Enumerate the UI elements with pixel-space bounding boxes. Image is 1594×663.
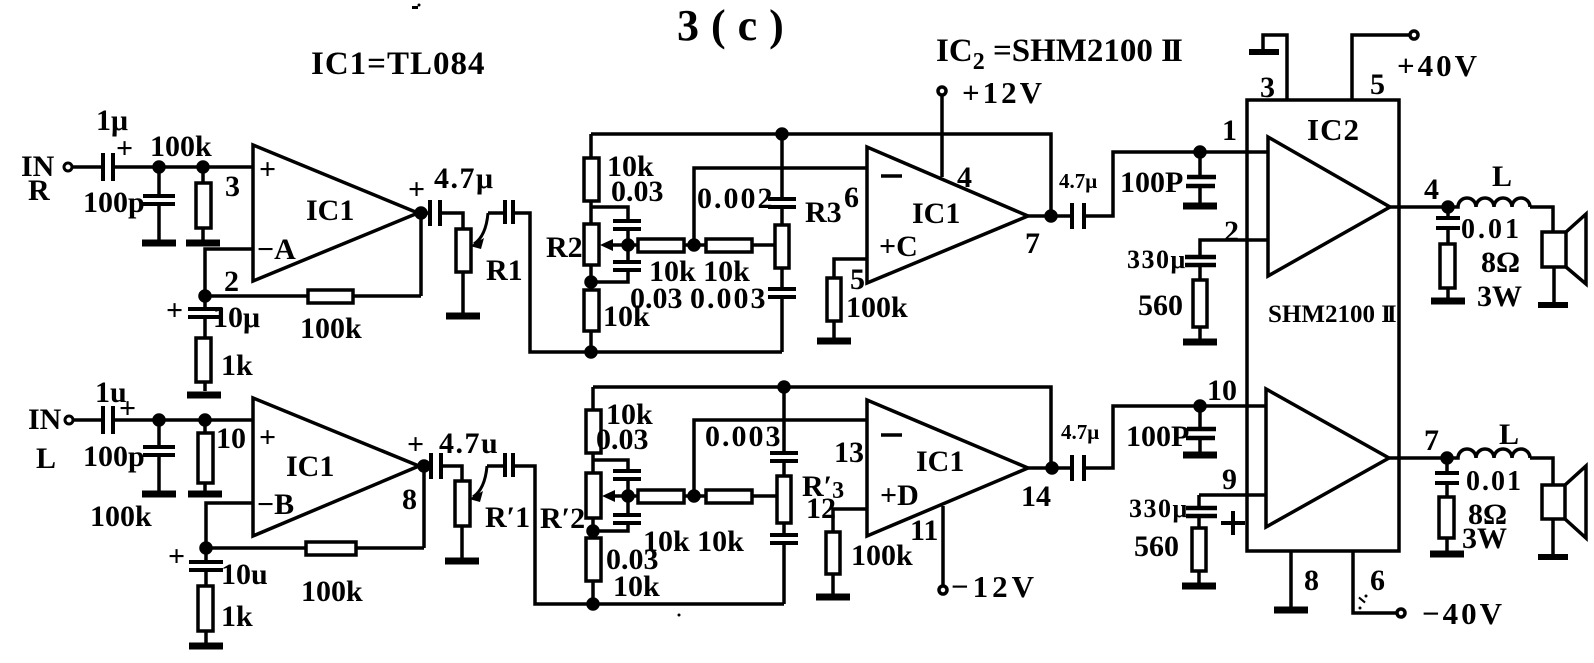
node mid filter (L) xyxy=(689,491,699,501)
capacitor 0.01 (lower zobel) xyxy=(1435,458,1523,497)
svg-text:10: 10 xyxy=(216,422,246,455)
capacitor 10u (B) xyxy=(168,540,268,591)
wire output pin7 xyxy=(1389,456,1449,460)
wire feedback top rail (L) xyxy=(593,387,1051,468)
resistor 100k input (L) xyxy=(90,420,213,533)
svg-text:−40V: −40V xyxy=(1422,596,1505,631)
wire D out to IC2 pin10 xyxy=(1084,406,1200,468)
capacitor 100P (pin10) xyxy=(1126,406,1216,453)
capacitor 0.003 (L) xyxy=(705,387,798,476)
node wiper R'2 xyxy=(623,491,633,501)
node R input 1 xyxy=(154,162,164,172)
capacitor 100p (L) xyxy=(83,420,175,491)
svg-text:+: + xyxy=(259,421,276,454)
svg-text:330μ: 330μ xyxy=(1129,494,1189,523)
resistor 100k pin5 (C) xyxy=(827,278,908,338)
ground 100p (L) xyxy=(142,492,176,496)
ground pin3 xyxy=(1249,49,1279,55)
svg-text:+: + xyxy=(166,294,183,327)
resistor 8ohm (upper zobel) xyxy=(1440,244,1522,313)
svg-text:L: L xyxy=(1492,160,1512,193)
node pin4 xyxy=(1443,202,1453,212)
svg-text:1k: 1k xyxy=(221,349,253,382)
ground zobel (lower) xyxy=(1430,552,1464,556)
wire L to speaker (lower) xyxy=(1530,458,1553,485)
op-amp U1A IC1 xyxy=(253,145,418,281)
node L input 2 xyxy=(200,415,210,425)
capacitor 0.01 (upper zobel) xyxy=(1436,207,1522,245)
potentiometer R'2 xyxy=(540,473,628,538)
inductor L (upper) xyxy=(1450,160,1530,207)
svg-text:9: 9 xyxy=(1222,463,1237,496)
resistor 10k lower chain (R) xyxy=(584,290,650,352)
speck marks xyxy=(412,4,1368,617)
wire R input to op-amp xyxy=(113,165,253,169)
svg-text:7: 7 xyxy=(1025,227,1040,260)
svg-text:0.002: 0.002 xyxy=(697,182,775,215)
input terminal R xyxy=(64,163,72,171)
wire to R'1 xyxy=(441,466,462,481)
wire pin10 internal xyxy=(1200,404,1266,408)
svg-text:4: 4 xyxy=(957,161,972,194)
svg-text:2: 2 xyxy=(224,265,239,298)
ground 100k pin12 (D) xyxy=(816,595,850,599)
svg-text:100k: 100k xyxy=(301,575,363,608)
input terminal L xyxy=(65,416,73,424)
node L input 1 xyxy=(154,415,164,425)
node pin7 xyxy=(1442,453,1452,463)
svg-text:4.7μ: 4.7μ xyxy=(1059,169,1097,193)
resistor R3 xyxy=(775,196,842,289)
capacitor 0.003 (R) xyxy=(690,282,796,352)
node chain junction (L) xyxy=(588,526,598,536)
svg-text:6: 6 xyxy=(844,181,859,214)
wire input L xyxy=(73,418,103,422)
svg-text:IC1: IC1 xyxy=(912,197,960,230)
capacitor coupling (B to filter) xyxy=(487,453,513,477)
svg-text:+: + xyxy=(116,132,133,165)
supply +12V terminal xyxy=(938,75,1045,177)
svg-text:IC1: IC1 xyxy=(306,194,354,227)
capacitor lower (L R'3) xyxy=(770,535,798,604)
ground R'1 xyxy=(445,559,479,563)
ground 100k pin5 (C) xyxy=(817,339,851,343)
node output D xyxy=(1047,463,1057,473)
capacitor 0.002 (R) xyxy=(697,134,796,225)
svg-text:1: 1 xyxy=(1222,114,1237,147)
wire output C xyxy=(1028,214,1072,218)
svg-text:0.03: 0.03 xyxy=(596,423,649,456)
capacitor C 1u (L input) xyxy=(95,376,136,434)
svg-text:560: 560 xyxy=(1134,530,1179,563)
svg-text:0.03: 0.03 xyxy=(611,175,664,208)
wire pin8 xyxy=(1289,551,1293,607)
node mid filter (R) xyxy=(689,240,699,250)
amp triangle 2 (IC2 lower) xyxy=(1266,389,1389,527)
resistor R'3 xyxy=(777,470,844,535)
svg-text:3W: 3W xyxy=(1462,522,1507,555)
svg-text:8: 8 xyxy=(402,483,417,516)
resistor 10k horizontal A (L) xyxy=(628,490,744,558)
svg-text:3(c): 3(c) xyxy=(677,1,796,50)
ground zobel (upper) xyxy=(1431,299,1465,303)
ground speaker (lower) xyxy=(1538,554,1568,560)
node feedback A xyxy=(200,291,210,301)
svg-text:7: 7 xyxy=(1424,424,1439,457)
wire mid node to pin6 xyxy=(694,168,867,245)
svg-text:5: 5 xyxy=(1370,68,1385,101)
svg-text:0.01: 0.01 xyxy=(1466,466,1523,497)
wire coupling to filter bottom rail (L) xyxy=(513,466,784,604)
wire pin9 internal xyxy=(1199,493,1266,497)
svg-text:10: 10 xyxy=(1207,374,1237,407)
wire mid node to pin13 xyxy=(694,420,867,496)
ground 100p (R) xyxy=(142,241,176,245)
svg-text:R′1: R′1 xyxy=(485,501,530,534)
resistor 10k horizontal B (L) xyxy=(706,490,778,503)
ground 1k (A) xyxy=(187,393,221,397)
svg-text:+40V: +40V xyxy=(1397,48,1480,83)
svg-text:+C: +C xyxy=(879,230,918,263)
svg-text:10k 10k: 10k 10k xyxy=(643,525,744,558)
potentiometer R1 xyxy=(456,213,523,313)
ground 560 (pin9) xyxy=(1182,584,1216,588)
ground 100P (pin10) xyxy=(1183,453,1217,457)
op-amp U1C IC1 xyxy=(867,147,1028,283)
capacitor 4.7u (D out) xyxy=(1061,420,1099,481)
svg-text:+: + xyxy=(408,173,425,206)
svg-text:4.7u: 4.7u xyxy=(439,427,499,460)
resistor 100k pin12 (D) xyxy=(826,532,913,594)
capacitor 0.03 upper (L) xyxy=(593,460,641,496)
node feedback B xyxy=(201,543,211,553)
svg-text:10μ: 10μ xyxy=(213,301,260,334)
capacitor 4.7u (C out) xyxy=(1059,169,1097,229)
svg-text:10u: 10u xyxy=(221,558,268,591)
resistor 10k upper chain (R) xyxy=(584,134,664,224)
svg-text:R3: R3 xyxy=(805,196,842,229)
node filter bottom (R) xyxy=(586,347,596,357)
svg-text:3: 3 xyxy=(225,170,240,203)
svg-text:330μ: 330μ xyxy=(1127,245,1187,274)
capacitor 330u (pin9) xyxy=(1129,494,1245,535)
svg-text:1k: 1k xyxy=(221,600,253,633)
svg-text:R1: R1 xyxy=(486,254,523,287)
svg-text:L: L xyxy=(1499,418,1519,451)
speaker (upper) xyxy=(1542,214,1586,302)
wire pin2 xyxy=(1200,240,1268,256)
svg-text:100P: 100P xyxy=(1120,166,1183,199)
svg-text:11: 11 xyxy=(910,514,938,547)
resistor 10k horizontal A (R) xyxy=(628,239,750,288)
wire output D xyxy=(1028,466,1072,470)
supply -12V terminal xyxy=(939,506,1038,604)
resistor 10k lower chain (L) xyxy=(586,538,660,604)
capacitor 330u (pin2) xyxy=(1127,245,1216,280)
ground pin8 xyxy=(1274,608,1308,612)
node filter bottom (L) xyxy=(588,599,598,609)
wire L to speaker (upper) xyxy=(1530,207,1553,232)
ground R1 xyxy=(446,314,480,318)
node pin10 xyxy=(1195,401,1205,411)
svg-text:R: R xyxy=(28,174,50,207)
ground speaker (upper) xyxy=(1538,302,1568,308)
ground 560 (pin2) xyxy=(1183,340,1217,344)
wire C out to IC2 pin1 xyxy=(1084,152,1249,216)
svg-text:R′2: R′2 xyxy=(540,502,585,535)
svg-text:100k: 100k xyxy=(90,500,152,533)
svg-text:IC2: IC2 xyxy=(1307,112,1360,147)
wire input R xyxy=(72,165,103,169)
svg-text:100k: 100k xyxy=(300,312,362,345)
wire coupling to filter bottom rail (R) xyxy=(513,213,782,352)
node R input 2 xyxy=(198,162,208,172)
wire to R1 xyxy=(440,213,463,229)
wire output A xyxy=(418,211,430,215)
svg-text:−B: −B xyxy=(257,488,294,521)
ground 1k (B) xyxy=(189,644,223,648)
op-amp U1D IC1 xyxy=(867,400,1028,536)
op-amp U1B IC1 xyxy=(253,398,419,536)
svg-text:100k: 100k xyxy=(851,539,913,572)
ground 100P (pin1) xyxy=(1183,204,1217,208)
svg-text:+D: +D xyxy=(880,479,919,512)
svg-text:3: 3 xyxy=(1260,71,1275,104)
speaker (lower) xyxy=(1542,466,1586,554)
svg-text:4.7μ: 4.7μ xyxy=(434,162,495,195)
svg-text:13: 13 xyxy=(834,436,864,469)
svg-text:560: 560 xyxy=(1138,289,1183,322)
capacitor 100P (pin1) xyxy=(1120,152,1216,203)
node output C xyxy=(1046,211,1056,221)
supply +40V terminal xyxy=(1397,31,1480,83)
svg-text:100k: 100k xyxy=(150,130,212,163)
svg-text:IC1: IC1 xyxy=(916,445,964,478)
svg-text:R2: R2 xyxy=(546,231,583,264)
svg-text:+: + xyxy=(407,428,424,461)
wire pin1 internal xyxy=(1249,150,1268,154)
capacitor 0.03 lower (L) xyxy=(593,496,641,531)
svg-text:+12V: +12V xyxy=(962,75,1045,110)
node output A xyxy=(416,208,426,218)
IC U2 SHM2100 box xyxy=(1247,100,1399,551)
wire output pin4 xyxy=(1390,205,1450,209)
svg-text:−A: −A xyxy=(257,233,296,266)
resistor 100k feedback (A) xyxy=(205,213,421,345)
wire pin12 U1D xyxy=(833,509,867,532)
svg-text:IC1: IC1 xyxy=(286,450,334,483)
resistor 560 (pin9) xyxy=(1134,528,1206,583)
svg-text:IN: IN xyxy=(28,403,62,436)
wire pin6 xyxy=(1353,551,1397,613)
potentiometer R'1 xyxy=(455,466,530,558)
svg-text:0.01: 0.01 xyxy=(1461,214,1522,245)
svg-text:6: 6 xyxy=(1370,564,1385,597)
amp triangle 1 (IC2 upper) xyxy=(1268,137,1390,276)
node top rail (R) xyxy=(777,129,787,139)
svg-text:L: L xyxy=(36,442,56,475)
resistor 8ohm (lower zobel) xyxy=(1439,497,1507,555)
capacitor 10u (A) xyxy=(166,294,260,338)
node pin1 xyxy=(1195,147,1205,157)
svg-text:0.003: 0.003 xyxy=(690,282,768,315)
svg-text:14: 14 xyxy=(1021,480,1051,513)
wire output B xyxy=(419,464,431,468)
resistor 560 (pin2) xyxy=(1138,280,1207,339)
supply -40V terminal xyxy=(1397,596,1505,631)
svg-text:SHM2100 II: SHM2100 II xyxy=(1268,301,1396,328)
svg-text:4: 4 xyxy=(1424,173,1439,206)
svg-text:3W: 3W xyxy=(1477,280,1522,313)
ground 100k input (R) xyxy=(186,241,220,245)
resistor 10k upper chain (L) xyxy=(586,387,653,473)
wire inverting U1B xyxy=(206,503,253,548)
resistor 1k (B) xyxy=(198,586,253,643)
svg-text:100P: 100P xyxy=(1126,420,1189,453)
node chain junction (R) xyxy=(586,277,596,287)
capacitor 0.03 lower (R) xyxy=(591,245,683,315)
wire pin2 U1A xyxy=(205,249,253,296)
resistor 10k horizontal B (R) xyxy=(706,239,776,252)
potentiometer R2 xyxy=(546,224,628,290)
node top rail (L) xyxy=(779,382,789,392)
capacitor 0.03 upper (R) xyxy=(591,207,641,245)
svg-text:8Ω: 8Ω xyxy=(1481,246,1520,279)
capacitor 100p (R) xyxy=(83,167,175,240)
svg-text:8: 8 xyxy=(1304,564,1319,597)
resistor 1k (A) xyxy=(196,338,253,391)
wire feedback top rail (R) xyxy=(591,134,1051,216)
wire pin5 xyxy=(1352,35,1410,100)
svg-text:10k: 10k xyxy=(613,570,660,603)
wire pin5 U1C xyxy=(834,259,867,278)
svg-text:100p: 100p xyxy=(83,186,145,219)
svg-text:4.7μ: 4.7μ xyxy=(1061,420,1099,444)
svg-text:+: + xyxy=(168,540,185,573)
capacitor 4.7u (B) xyxy=(407,427,499,479)
inductor L (lower) xyxy=(1449,418,1530,458)
svg-text:−12V: −12V xyxy=(951,569,1038,604)
capacitor C 1u (R input) xyxy=(96,104,133,181)
ground 100k input (L) xyxy=(188,492,222,496)
wire L input to op-amp xyxy=(113,418,253,422)
svg-text:0.003: 0.003 xyxy=(705,420,783,453)
svg-text:100k: 100k xyxy=(846,291,908,324)
capacitor coupling (A to filter) xyxy=(488,200,513,224)
node output B xyxy=(419,461,429,471)
svg-text:2: 2 xyxy=(1224,215,1239,248)
svg-text:100p: 100p xyxy=(83,440,145,473)
resistor 100k input (R) xyxy=(196,167,211,240)
capacitor 4.7u (A) xyxy=(408,162,495,226)
node wiper R2 xyxy=(623,240,633,250)
resistor 100k feedback (B) xyxy=(206,466,424,608)
svg-text:+: + xyxy=(259,153,276,186)
wire pin3 xyxy=(1263,35,1287,100)
svg-text:IC1=TL084: IC1=TL084 xyxy=(311,46,486,82)
